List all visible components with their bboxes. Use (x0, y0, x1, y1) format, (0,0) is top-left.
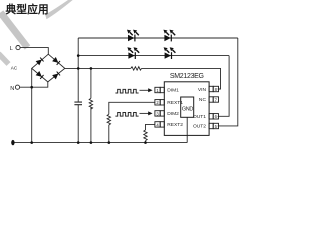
ground vertical from bridge left corner (31, 68, 33, 142)
pin 5 squares (OUT2) (209, 123, 218, 128)
dim1 arrow head (148, 88, 152, 92)
svg-text:VIN: VIN (198, 87, 207, 93)
pulse waveform 1 (115, 89, 138, 93)
bridge diode D3 (left-bottom edge) (36, 71, 44, 79)
out2 return vertical (218, 38, 238, 126)
pin 4 squares (155, 122, 164, 127)
pin 1 squares (155, 87, 164, 92)
svg-text:5: 5 (215, 124, 218, 129)
junction node N-ground (30, 86, 33, 89)
svg-text:OUT2: OUT2 (193, 124, 206, 130)
op-amp U1 SM2123EG outline (164, 82, 209, 136)
LED D7 row2 first (127, 47, 139, 59)
pin 3 squares (155, 111, 164, 116)
svg-text:REXT2: REXT2 (167, 122, 183, 128)
resistor R3 (REXT1) zigzag (107, 114, 110, 125)
dc bus wire (65, 67, 131, 69)
watermark swoosh curve (45, 0, 74, 19)
pin 2 squares (155, 100, 164, 105)
pin 6 squares (OUT1) (209, 114, 218, 119)
terminal L circle (16, 46, 20, 50)
rext1 wire (109, 102, 155, 114)
bus wire to VIN (142, 68, 221, 89)
svg-text:REXT1: REXT1 (167, 100, 183, 106)
junction node row2-anode (77, 54, 80, 57)
terminal N circle (15, 85, 19, 89)
junction node bus-led (77, 67, 80, 70)
svg-text:典型应用: 典型应用 (6, 2, 49, 16)
led row 2 wire (78, 55, 229, 57)
gnd pad wire (186, 117, 188, 142)
ground rail (13, 142, 187, 144)
bridge diode D1 (left-top edge) (36, 57, 44, 65)
capacitor C1 plates (74, 102, 82, 105)
LED D5 row1 first (127, 30, 139, 42)
junction node rail-R4 (144, 141, 147, 144)
resistor R2 bottom lead (90, 107, 92, 142)
resistor R3 bottom lead (108, 125, 110, 143)
svg-text:DIM2: DIM2 (167, 111, 179, 117)
bridge diode D2 (top-right edge) (52, 57, 60, 65)
dim2 arrow head (148, 111, 152, 115)
svg-text:GND: GND (182, 106, 193, 112)
svg-text:DIM1: DIM1 (167, 88, 179, 94)
svg-text:4: 4 (156, 122, 159, 127)
resistor R2 top lead (90, 68, 92, 98)
svg-text:7: 7 (215, 97, 218, 102)
dim2 arrow line (140, 112, 149, 114)
out1 return vertical (218, 56, 229, 117)
pin 7 squares (NC) (209, 97, 218, 102)
watermark blob (0, 54, 9, 65)
svg-text:N: N (10, 86, 14, 92)
resistor R4 (REXT2) zigzag (144, 130, 147, 141)
svg-text:OUT1: OUT1 (193, 114, 206, 120)
svg-text:AC: AC (11, 66, 18, 71)
svg-text:NC: NC (199, 97, 207, 103)
bridge diamond (32, 54, 65, 82)
watermark stroke 1 (diagonal band) (1, 13, 28, 48)
capacitor C1 bottom lead (77, 105, 79, 143)
svg-text:2: 2 (156, 100, 159, 105)
svg-text:SM2123EG: SM2123EG (170, 73, 204, 80)
svg-text:L: L (10, 46, 13, 52)
junction node bus-R2 (90, 67, 93, 70)
led row 1 wire (78, 37, 238, 39)
svg-text:6: 6 (215, 114, 218, 119)
rext2 wire (146, 124, 155, 130)
terminal L wire (20, 48, 48, 55)
LED D6 row1 second (163, 30, 175, 42)
ground rail left bullet (11, 140, 14, 145)
junction node rail-R3 (108, 141, 111, 144)
junction node rail-bridge (30, 141, 33, 144)
LED D8 row2 second (164, 47, 176, 59)
led anode vertical (77, 38, 79, 68)
terminal N wire (20, 82, 48, 87)
GND pad box (181, 97, 194, 117)
resistor R1 on bus (131, 67, 142, 70)
bridge diode D4 (bottom-right edge) (52, 71, 60, 79)
junction node rail-R2 (90, 141, 93, 144)
svg-text:3: 3 (156, 111, 159, 116)
pulse waveform 2 (115, 113, 138, 117)
capacitor C1 top lead (77, 68, 79, 102)
resistor R2 zigzag (89, 98, 92, 109)
svg-text:1: 1 (156, 88, 159, 93)
junction node rail-C1 (77, 141, 80, 144)
svg-text:8: 8 (215, 87, 218, 92)
resistor R4 bottom lead (145, 141, 147, 143)
dim1 arrow line (140, 89, 149, 91)
pin 8 squares (VIN) (209, 86, 218, 91)
